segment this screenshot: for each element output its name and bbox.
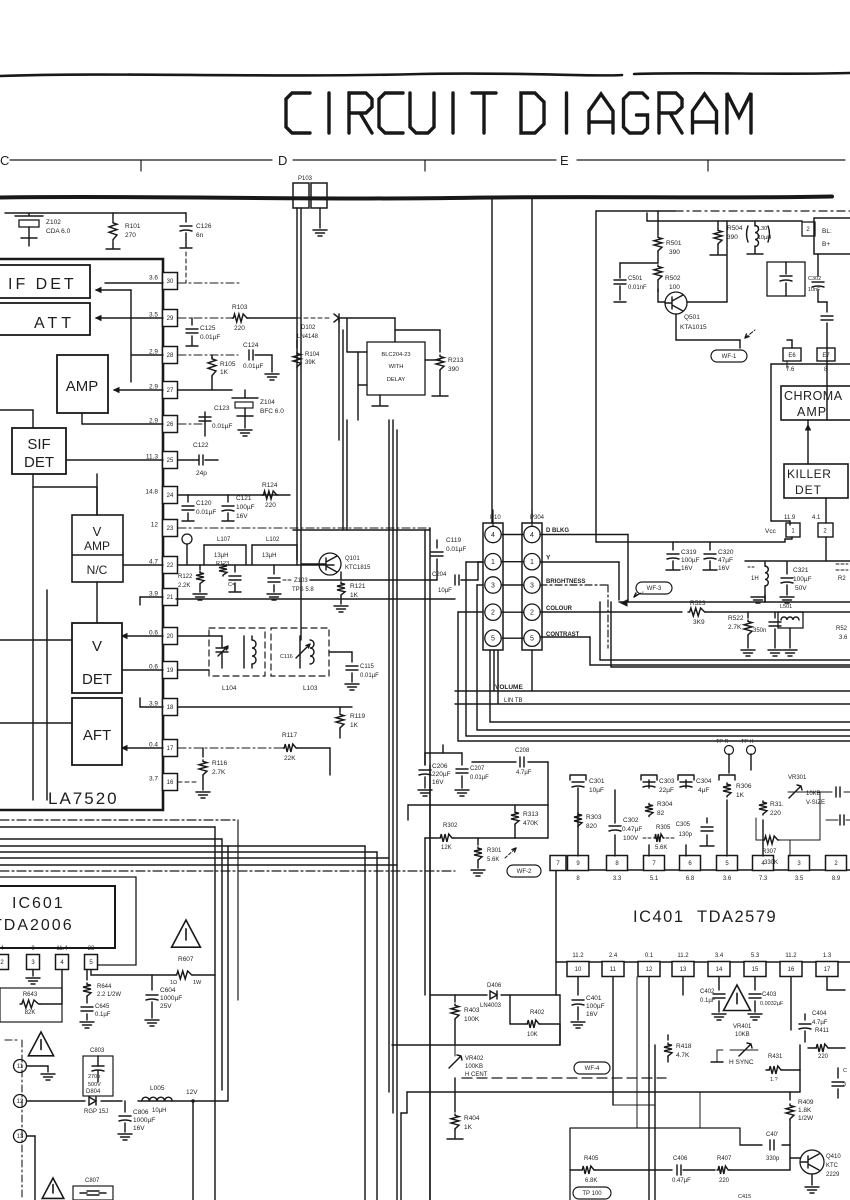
pin 14 of IC401 bottom [708,962,730,977]
svg-text:17: 17 [824,967,831,973]
svg-text:16V: 16V [681,565,693,572]
tuning box L104 [209,628,265,676]
svg-text:R307: R307 [762,849,777,855]
wire net contrast [540,636,590,638]
svg-text:2: 2 [530,610,534,617]
wire tp line [750,754,752,770]
pin 27 of LA7520 [163,382,178,399]
capacitor C408 [770,1140,774,1150]
svg-text:390: 390 [669,249,680,256]
svg-text:R124: R124 [262,482,278,489]
svg-text:C119: C119 [446,537,461,544]
svg-text:4: 4 [530,532,534,539]
resistor R404 [454,1078,456,1112]
svg-text:12V: 12V [186,1089,198,1096]
svg-text:16V: 16V [586,1011,598,1018]
svg-text:8.9: 8.9 [832,876,841,882]
capacitor C204 [455,575,459,585]
svg-text:C501: C501 [628,276,643,282]
svg-text:1.8K: 1.8K [798,1107,812,1114]
terminal node [182,534,192,544]
block BL box [814,218,850,254]
wire pin29 row [178,317,232,319]
bus dashdot 871 [0,870,455,872]
resistor R101 [112,213,114,220]
page frame top border line [0,73,850,76]
svg-text:16V: 16V [133,1125,145,1132]
connector pin 1 left [485,554,501,570]
svg-text:10: 10 [575,967,582,973]
svg-text:C204: C204 [432,572,447,578]
wire pin18 stub [140,706,163,708]
svg-text:4.1: 4.1 [812,515,821,521]
pin 11 of IC401 bottom [602,962,624,977]
pin ic601 3 [27,955,40,970]
svg-text:LA7520: LA7520 [48,789,119,808]
capacitor C118 [234,565,236,572]
wire vr301 tail [803,791,832,793]
svg-text:LN4003: LN4003 [480,1003,502,1009]
svg-text:R418: R418 [676,1043,692,1050]
wire bus r3 [610,602,612,667]
wire bus r1 [599,602,601,660]
capacitor C122 [199,455,203,465]
wire delay box left [346,318,348,352]
svg-text:C403: C403 [762,992,777,998]
svg-text:C121: C121 [236,495,252,502]
svg-text:39K: 39K [305,360,316,366]
svg-text:13µH: 13µH [262,553,276,559]
capacitor right 820 [826,819,838,821]
svg-text:E: E [560,153,569,168]
svg-text:10µF: 10µF [589,787,604,794]
wire SIF DET stub down [96,474,98,515]
wire x560 down [559,995,561,1045]
svg-text:LN4148: LN4148 [297,334,319,340]
svg-text:3.7: 3.7 [149,776,158,783]
resistor R501 [657,211,659,235]
svg-text:5.6K: 5.6K [655,845,667,851]
svg-text:R101: R101 [125,223,141,230]
svg-text:820: 820 [586,823,597,830]
svg-text:1K: 1K [350,722,359,729]
wire pin28 row [178,354,238,356]
wire net Y [540,561,619,563]
svg-text:0.01µF: 0.01µF [196,509,216,516]
svg-text:C803: C803 [90,1048,105,1054]
connector pin 2 left [485,604,501,620]
resistor R104 [296,340,298,348]
block SIF DET box [12,428,66,474]
svg-text:14.8: 14.8 [145,489,158,496]
svg-text:100µF: 100µF [681,557,700,564]
svg-text:R306: R306 [736,783,752,790]
bottom box [570,1128,740,1200]
pin box 2 ic301 [818,523,833,537]
pin 29 of LA7520 [163,310,178,327]
svg-text:390: 390 [448,366,459,373]
pin 25 of LA7520 [163,452,178,469]
bus 858 [0,857,389,859]
svg-text:470K: 470K [523,820,539,827]
svg-text:WITH: WITH [389,364,404,370]
resistor R117 [283,744,297,752]
svg-text:5.1: 5.1 [650,876,659,882]
connector P304 shell [522,523,542,650]
capacitor C126 [185,213,187,222]
wire VAMP top up [96,487,98,515]
svg-text:H CENT: H CENT [465,1072,488,1078]
resistor R123 [219,564,227,576]
wire pin16 down [790,977,792,1030]
bus 827 [0,826,215,828]
svg-text:R117: R117 [282,732,297,739]
svg-text:D102: D102 [301,325,316,331]
svg-text:2.4: 2.4 [609,953,618,959]
svg-text:AMP: AMP [66,378,99,395]
svg-text:R305: R305 [656,825,671,831]
connector P103 [293,183,309,208]
wire top rail [5,212,186,214]
wire 12V down [192,1101,194,1200]
wire E box left [595,211,597,542]
resistor R643 box [0,988,62,1022]
IC LA7520 outer box [0,259,163,810]
warning triangle 801 [28,1032,53,1056]
svg-text:C604: C604 [160,987,176,994]
svg-text:1000µF: 1000µF [160,995,182,1002]
wire bus r5 [458,611,483,613]
svg-text:11.2: 11.2 [677,953,689,959]
resistor R124 [262,491,278,499]
capacitor C124 [249,350,253,360]
svg-text:19: 19 [167,668,174,674]
svg-text:13: 13 [680,967,687,973]
ground L500 [764,595,766,602]
svg-text:3.6: 3.6 [149,275,158,282]
wire V DET left [0,639,72,641]
svg-text:R431: R431 [768,1054,783,1060]
resistor R213 [439,342,441,352]
svg-text:47µF: 47µF [718,557,733,564]
svg-text:4.7µF: 4.7µF [516,770,532,776]
svg-text:100V: 100V [623,835,639,842]
svg-text:C126: C126 [196,223,212,230]
wire pin18 row [178,706,352,708]
connector pin 3 right [524,577,540,593]
dashdot vertical [21,1040,23,1200]
oval WF-1 [711,350,747,362]
svg-text:C404: C404 [812,1011,827,1017]
svg-text:22µF: 22µF [659,787,674,794]
svg-text:26: 26 [167,422,174,428]
svg-text:VR401: VR401 [733,1024,752,1030]
svg-text:10K: 10K [527,1032,538,1038]
svg-text:KTC: KTC [826,1163,839,1169]
svg-text:R105: R105 [220,361,236,368]
wire bus r4 [477,584,483,586]
svg-text:C319: C319 [681,549,697,556]
svg-text:Z103: Z103 [294,578,308,584]
wire colour cont [706,611,850,613]
svg-text:2.2K: 2.2K [178,583,190,589]
wire pin26 row [178,423,205,425]
wire under E pins [771,363,850,365]
svg-text:270p: 270p [88,1074,100,1080]
pin box 1 ic301 [786,523,800,537]
capacitor C413 [837,1068,839,1078]
capacitor C207 [461,753,463,765]
wire net volume [493,650,495,691]
svg-text:R407: R407 [717,1156,732,1162]
capacitor C305 [706,835,708,845]
svg-text:0.1µF: 0.1µF [700,998,716,1004]
wire pin link 3 [502,584,523,586]
capacitor C403 [754,977,756,990]
svg-text:R304: R304 [657,801,673,808]
capacitor C123 [204,412,206,424]
resistor R502 [654,265,662,281]
svg-text:10µF: 10µF [438,588,452,594]
connector pin 4 left [485,526,501,542]
svg-text:220: 220 [234,325,245,332]
pin 2 of IC401 top [826,856,847,871]
wire pin20 row [178,635,222,637]
svg-text:0.01µF: 0.01µF [200,334,220,341]
capacitor C119 [436,540,438,548]
svg-text:TDA2579: TDA2579 [697,908,777,926]
svg-text:2229: 2229 [826,1172,840,1178]
svg-text:RGP 15J: RGP 15J [84,1109,108,1115]
connector pin 2 right [524,604,540,620]
wire pin17 down [826,977,828,990]
svg-text:13: 13 [17,1134,24,1140]
svg-text:17: 17 [167,746,174,752]
safety box C807 [73,1186,113,1200]
svg-text:KTA1015: KTA1015 [680,324,707,331]
svg-text:R2: R2 [838,576,846,582]
svg-text:C321: C321 [793,567,809,574]
resistor R121 [340,572,342,580]
svg-text:Q410: Q410 [826,1154,841,1160]
svg-text:AMP: AMP [84,539,110,553]
svg-text:C645: C645 [95,1004,110,1010]
svg-text:12: 12 [646,967,653,973]
svg-text:C122: C122 [193,442,209,449]
svg-text:ATT: ATT [34,315,75,332]
svg-text:C320: C320 [718,549,734,556]
svg-text:IC401: IC401 [633,908,685,926]
diode D804 [89,1097,96,1105]
wire pin link 2 [502,611,523,613]
resistor R303 [574,813,582,827]
wire Q101 base left [301,563,319,565]
svg-text:WF-3: WF-3 [647,586,662,592]
svg-text:BRIGHTNESS: BRIGHTNESS [546,579,585,585]
capacitor C115 [351,652,353,662]
svg-text:16V: 16V [432,779,444,786]
svg-text:11: 11 [17,1064,24,1070]
block V DET box [72,623,122,693]
pin box E6 [783,348,801,361]
svg-text:270: 270 [125,232,136,239]
svg-text:C125: C125 [200,325,216,332]
svg-text:R301: R301 [487,848,502,854]
svg-text:350n: 350n [753,628,766,634]
svg-text:220: 220 [719,1178,730,1184]
svg-text:3.4: 3.4 [715,953,724,959]
svg-text:28: 28 [167,353,174,359]
svg-text:R403: R403 [464,1007,480,1014]
wire NC to V DET [96,582,98,623]
svg-text:330K: 330K [764,860,778,866]
capacitor C522 [774,612,776,618]
wire P103 ground [319,208,321,228]
block IF DET box [0,265,90,298]
resistor R304 [645,804,653,817]
svg-text:16V: 16V [718,565,730,572]
wire x301 lower [300,530,302,640]
svg-text:13µH: 13µH [214,553,228,559]
svg-text:BLC204-23: BLC204-23 [381,352,410,358]
svg-text:10µH: 10µH [152,1108,166,1114]
capacitor C206 [424,753,426,765]
IC IC601 box [0,886,115,948]
wire C501 R502 [620,262,658,264]
oval WF-2 [507,865,541,877]
resistor R522 [747,612,749,618]
capacitor C125 [191,318,193,325]
capacitor C401 [577,977,579,995]
svg-text:C208: C208 [515,748,530,754]
svg-text:DET: DET [82,671,112,688]
resonator Z104 [232,397,258,399]
svg-text:C: C [843,1068,847,1074]
svg-text:12: 12 [151,522,159,529]
wire bus x430 [429,528,431,1200]
svg-text:Z102: Z102 [46,219,61,226]
svg-text:R523: R523 [690,600,706,607]
wire net blkg [540,534,628,536]
wire internal bus x131 [130,290,132,382]
svg-text:CDA 6.0: CDA 6.0 [46,228,71,235]
svg-text:L102: L102 [266,537,280,543]
inductor L102 [251,545,253,565]
pin 21 of LA7520 [163,589,178,606]
svg-text:1K: 1K [220,369,229,376]
svg-text:V-SIZE: V-SIZE [806,800,825,806]
svg-text:R303: R303 [586,814,602,821]
transistor Q101 [319,553,341,575]
resistor R307 [763,836,779,844]
oval WF-4 [574,1062,610,1074]
svg-text:C302: C302 [623,817,639,824]
svg-text:BL:: BL: [822,228,832,235]
pin 7a of IC401 [550,856,566,871]
wire killer down [825,498,827,523]
svg-text:V: V [93,524,102,539]
resistor R306 [726,800,728,856]
wire bus r2 [466,561,483,563]
svg-text:Q501: Q501 [684,314,700,321]
pin 12 of IC401 bottom [638,962,660,977]
pin 8 of IC401 top [607,856,628,871]
svg-text:0.01µF: 0.01µF [470,775,489,781]
capacitor C319 [672,542,674,550]
pin 13 of IC401 bottom [672,962,694,977]
svg-text:R52: R52 [836,626,848,632]
svg-text:11.9: 11.9 [784,515,796,521]
pot VR402 [449,1055,462,1068]
pin 20 of LA7520 [163,628,178,645]
pin 17 of LA7520 [163,740,178,757]
svg-text:L107: L107 [217,537,231,543]
svg-text:15: 15 [752,967,759,973]
pin ic601 4 [56,955,69,970]
svg-text:25V: 25V [160,1003,172,1010]
svg-text:C807: C807 [85,1178,100,1184]
capacitor C501 [619,263,621,278]
pin 16 of LA7520 [163,774,178,791]
svg-text:KTC1815: KTC1815 [345,565,371,571]
svg-text:WF-2: WF-2 [517,869,532,875]
svg-text:0.01µF: 0.01µF [446,546,466,553]
svg-text:6.8: 6.8 [686,876,695,882]
wire pin12 down [648,977,650,1200]
svg-text:11.2: 11.2 [572,953,584,959]
svg-text:0.1µF: 0.1µF [95,1012,111,1018]
wire r307 [779,839,820,841]
svg-text:16: 16 [167,780,174,786]
bus dashdot 820 [0,819,238,821]
svg-text:82K: 82K [25,1010,36,1016]
pin 4 of IC401 top [753,856,774,871]
warning triangle 802 [42,1178,64,1198]
svg-text:10µH: 10µH [758,235,771,241]
wire bus x393 [392,420,394,1113]
svg-text:3: 3 [530,583,534,590]
blanking delay box [367,342,425,395]
svg-text:1: 1 [491,559,495,566]
safety box C302 [767,262,805,296]
pin 17 of IC401 bottom [816,962,838,977]
pin 6 of IC401 top [680,856,701,871]
ground pin3 [32,970,34,976]
svg-text:100: 100 [669,284,680,291]
svg-text:11.2: 11.2 [785,953,797,959]
wire pin21 row [176,598,455,600]
wire pin link 4 [502,534,523,536]
pin box 2 right [802,222,815,236]
wire pin17 to AFT [122,747,163,749]
wire x637 down [636,977,638,1128]
capacitor C303 [648,845,650,856]
wire P103 left pin down [296,208,298,560]
wire bus x343 [342,330,344,530]
pin 15 of IC401 bottom [744,962,766,977]
svg-text:23: 23 [88,946,95,952]
IC401 box [556,870,850,962]
wire junction x339 [338,318,340,440]
wire pin11 bottom [613,1104,655,1106]
svg-text:22: 22 [167,563,174,569]
svg-text:1000µF: 1000µF [133,1117,155,1124]
svg-text:0.0032µF: 0.0032µF [760,1001,784,1007]
capacitor C806 [124,1101,126,1112]
connector pin 3 left [485,577,501,593]
block AFT box [72,698,122,765]
resistor R403 [454,995,456,1002]
